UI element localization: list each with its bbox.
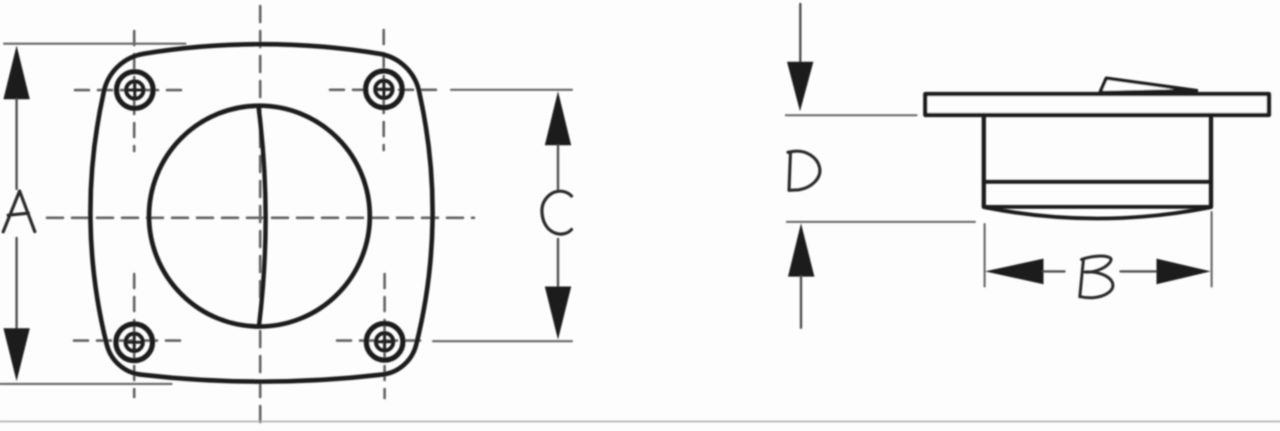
centerline screw TR horizontal [330,89,444,92]
dim B line left [1044,270,1065,272]
lift tab wedge [1100,78,1197,92]
dim C top extension line [451,89,572,91]
screw BR [366,324,403,361]
label D [788,151,820,190]
centerline screw BR horizontal [337,339,420,342]
centerline screw BL vertical [133,274,136,397]
dim C line lower [557,239,559,287]
body bottom line [984,205,1211,209]
plate outline [90,44,432,381]
dim D bottom extension line [787,221,975,223]
dim A bottom extension line [0,383,172,385]
dim A line lower [15,238,17,328]
flange [925,94,1269,115]
dim C line upper [557,145,559,189]
dim A line upper [15,99,17,189]
body right side [1209,115,1213,207]
screw BL [116,324,153,361]
dim B arrow right [1157,259,1211,285]
label C [542,191,572,234]
bottom border line [0,421,1280,423]
dim B left extension line [984,224,986,287]
body dome bottom [986,208,1210,219]
centerline horizontal center [47,217,474,220]
centerline screw TL horizontal [75,89,190,92]
centerline vertical center [259,6,262,428]
dim C arrow up [545,91,571,145]
dim A arrow up [3,46,29,100]
dim D surface extension line [786,114,917,116]
dim B arrow left [985,259,1044,285]
body inner line [984,180,1211,184]
dim B line right [1121,270,1157,272]
body left side [982,115,986,207]
circle opening [149,106,370,327]
label A [3,191,35,232]
dim D arrow up [788,223,814,276]
screw TL [117,72,154,109]
centerline screw BR vertical [383,274,386,398]
centerline screw TL vertical [133,31,136,151]
dim C bottom extension line [433,340,572,342]
dim D arrow down [787,62,813,112]
handle parting line [259,107,266,326]
dim A arrow down [3,328,29,381]
centerline screw TR vertical [382,30,385,150]
dim D upper line [799,4,801,62]
dim B right extension line [1211,212,1213,287]
dim D lower line [800,277,802,328]
label B [1080,256,1113,298]
centerline screw BL horizontal [74,339,188,342]
dim C arrow down [545,287,571,340]
screw TR [366,71,403,108]
dim A top extension line [4,43,186,45]
